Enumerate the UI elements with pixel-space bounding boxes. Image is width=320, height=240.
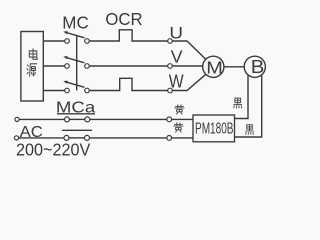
svg-text:V: V (171, 46, 183, 66)
svg-text:M: M (206, 57, 223, 77)
svg-text:W: W (169, 71, 184, 91)
svg-text:MC: MC (62, 13, 89, 33)
svg-text:200~220V: 200~220V (16, 139, 91, 159)
svg-text:OCR: OCR (105, 9, 142, 29)
svg-text:PM180B: PM180B (195, 121, 234, 138)
svg-text:MCa: MCa (56, 99, 96, 116)
svg-text:B: B (251, 57, 265, 77)
svg-text:U: U (169, 23, 183, 42)
